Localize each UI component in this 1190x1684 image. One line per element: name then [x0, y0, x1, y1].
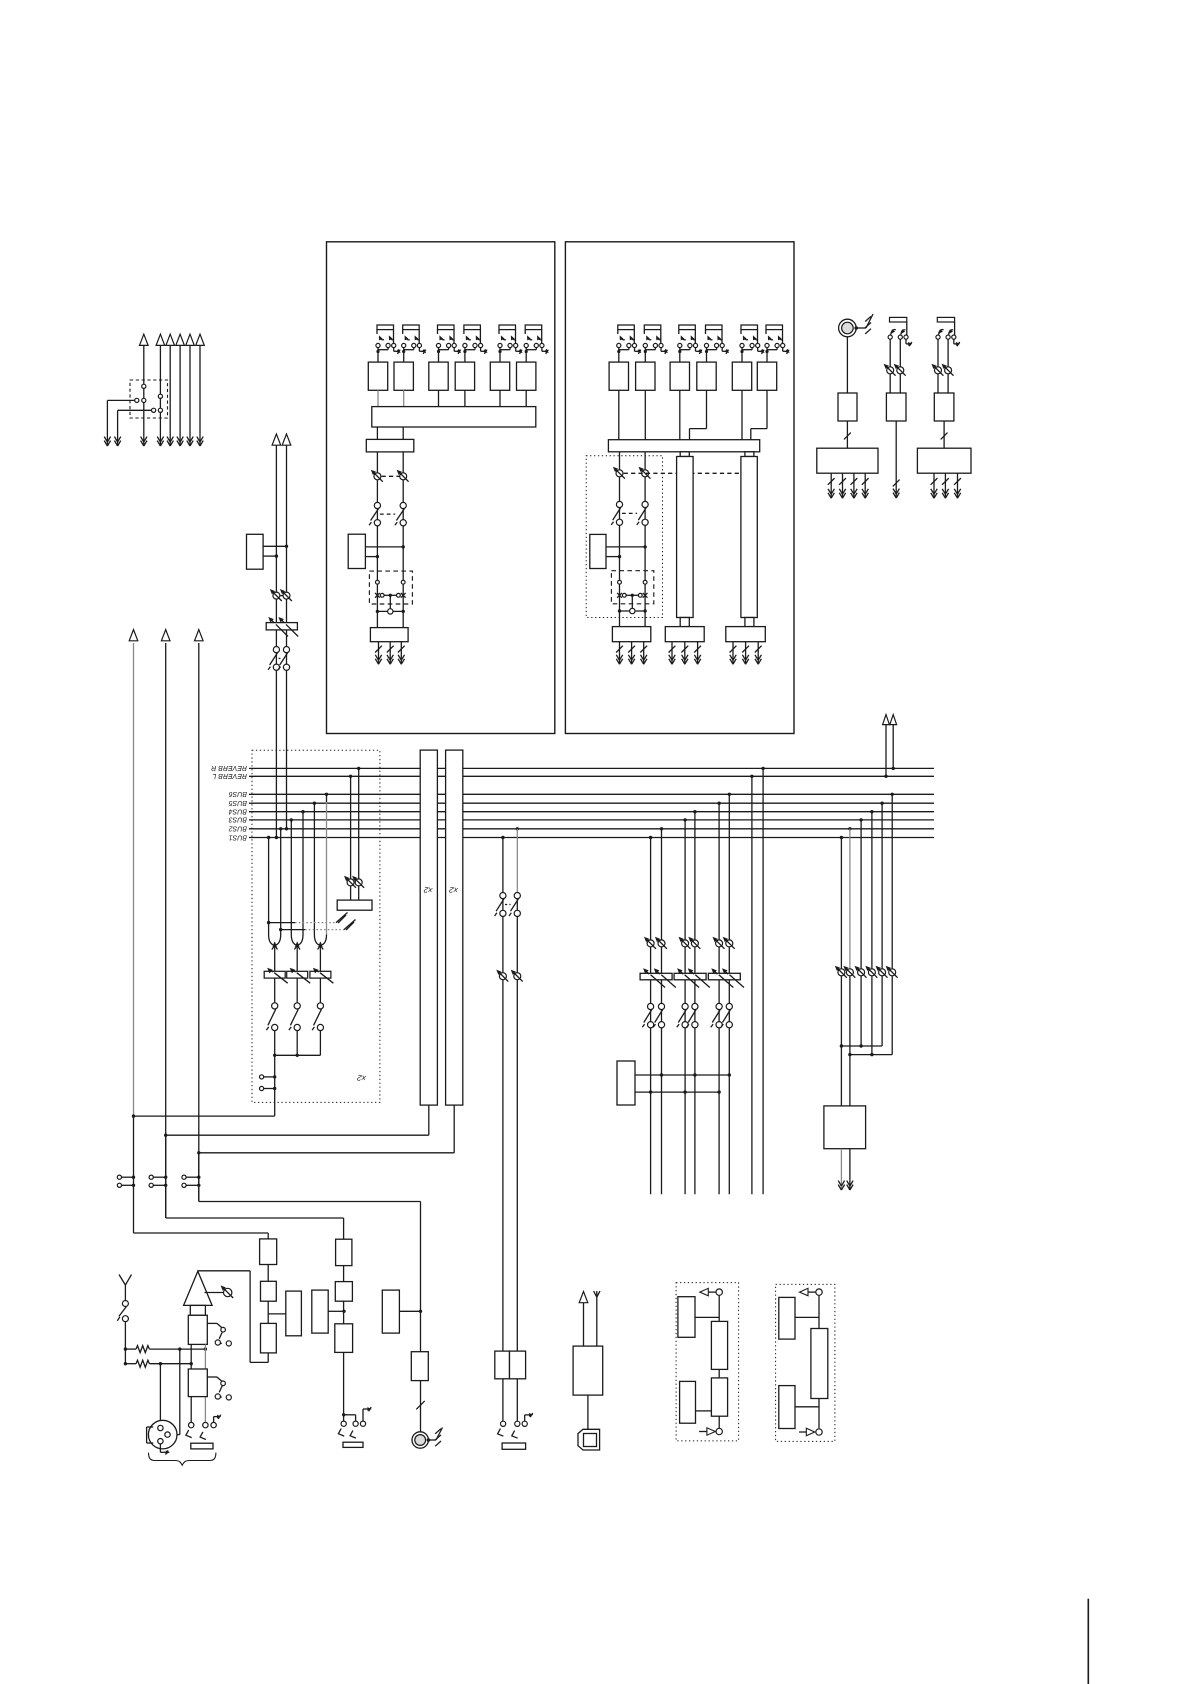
wire aux stub 2	[117, 410, 119, 446]
option2 out connector	[816, 1289, 822, 1295]
wire group drop B5	[717, 802, 720, 805]
option2 wiring top	[818, 1295, 820, 1328]
wire AUX B link	[399, 1310, 420, 1312]
wire group drop B4	[693, 810, 696, 813]
svg-text:BUS1: BUS1	[229, 833, 247, 840]
wire MON branch	[268, 1313, 286, 1315]
block FB1 out	[665, 627, 704, 642]
jack J2-1	[618, 325, 635, 330]
wire bus BUS5	[249, 802, 934, 804]
switch box S1 (dashed)	[130, 380, 168, 418]
wire MON out riser 2	[165, 643, 167, 1218]
jack J1-3	[438, 325, 455, 330]
wire MON A2-A3	[267, 1301, 269, 1323]
block head amp neck	[190, 1305, 205, 1315]
block HA2-5	[732, 362, 751, 390]
fader master 297	[287, 971, 308, 978]
wire rec drop B5	[880, 802, 883, 805]
wire group ref row1	[635, 1074, 729, 1076]
wire RV wiper L (dotted)	[269, 922, 295, 924]
pot group B2	[658, 940, 665, 947]
wire reverb send L	[750, 775, 753, 778]
wire rec merge odd	[840, 976, 842, 1106]
pot box2 VR-L	[616, 470, 623, 477]
wire ST pot gang (dashed)	[281, 595, 283, 597]
wire AMP-R2 out	[895, 421, 897, 490]
block HA1-4	[455, 362, 474, 390]
switch group B3	[682, 1003, 688, 1009]
pot group B6	[726, 940, 733, 947]
block box1 ref	[348, 534, 365, 568]
wire AMP-R3 out	[943, 421, 945, 448]
wire fader 297 out	[296, 978, 298, 1003]
option box 1 (dotted)	[676, 1283, 739, 1441]
wire CR tap L	[501, 836, 504, 839]
wire X2-B out	[453, 1105, 455, 1153]
switch box1 SW-L	[374, 502, 380, 508]
pot J4-L	[935, 367, 942, 374]
wire group/st output 3	[169, 346, 171, 447]
svg-text:BUS4: BUS4	[229, 808, 247, 815]
wire AUX out	[420, 1381, 422, 1432]
block box1 frame	[327, 242, 555, 734]
contact circles S1	[107, 399, 134, 401]
wire rec merge even	[849, 976, 851, 1106]
ground box1 g3	[400, 642, 402, 665]
wire bus BUS3	[249, 819, 934, 821]
fader master 275	[264, 971, 285, 978]
wire HA1-2 to bus bar	[403, 390, 405, 406]
wire master to monitor bus	[134, 1115, 275, 1117]
wire ST-L riser	[275, 445, 277, 837]
wire RV wiper R (dotted)	[281, 929, 305, 931]
fader bar X2-A	[420, 750, 437, 1105]
wire ST stub1	[263, 545, 286, 547]
amp triangle	[197, 1270, 199, 1272]
fader bar X2-B	[446, 750, 463, 1105]
wire bus BUS6	[249, 793, 934, 795]
option1 wiring top	[718, 1295, 720, 1321]
wire group drop B2	[660, 827, 663, 830]
option1 R4	[680, 1381, 696, 1423]
connector stubs riser2	[149, 1175, 153, 1179]
wire bus BUS2	[249, 828, 934, 830]
option2 wiring bottom	[818, 1399, 820, 1429]
jack phones	[502, 1379, 504, 1422]
ground box1 g2	[389, 642, 391, 665]
option1 wiring bottom	[718, 1416, 720, 1428]
fader bar FB1	[677, 457, 694, 618]
switch pad 2	[207, 1376, 217, 1378]
block OUT-R2	[917, 448, 971, 473]
jack J3	[890, 317, 907, 322]
pot CR-L	[499, 973, 506, 980]
block MON A2	[261, 1281, 277, 1301]
ground box1 g1	[378, 642, 380, 665]
jack J1-6	[525, 325, 542, 330]
wire group drop B3	[683, 818, 686, 821]
wire rec out L	[840, 1149, 842, 1190]
wire phantom input Y	[119, 1275, 125, 1286]
switch ST-L	[273, 647, 279, 653]
wire X2-A out	[428, 1105, 430, 1135]
wire group/st output 6	[199, 346, 201, 447]
block AMP-R2	[886, 393, 906, 421]
ground FB1 g1	[671, 642, 673, 665]
wire HA2-3 feed	[679, 390, 681, 439]
pot rec B3	[858, 969, 865, 976]
pot box1 VR-L	[374, 473, 381, 480]
jack J2-3	[679, 325, 696, 330]
fader bar FB2	[741, 457, 757, 618]
block phones amp R	[510, 1351, 526, 1379]
pot group B3	[682, 940, 689, 947]
connector stubs riser3	[182, 1175, 186, 1179]
wire ST switch gang (dashed)	[279, 657, 281, 659]
ground FB1 g2	[684, 642, 686, 665]
wire HA2-5 feed	[741, 390, 743, 439]
jack line in	[189, 1422, 194, 1427]
wire box1 switch gang (dashed)	[380, 513, 395, 515]
block TAPE A1	[336, 1239, 352, 1265]
ground OUT-R1 g4	[864, 473, 866, 498]
wire box2 gang (dashed)	[624, 472, 741, 474]
wire reverb return riser L	[884, 775, 887, 778]
block TAPE A2	[335, 1282, 352, 1302]
block HA1-1	[368, 362, 387, 390]
relay box box1 (dashed)	[369, 571, 412, 604]
wire rec drop B4	[870, 810, 873, 813]
ground FB2 g3	[757, 642, 759, 665]
wire power out +	[583, 1303, 585, 1347]
pot box1 VR-R	[400, 473, 407, 480]
wire drop B2 to cup	[279, 827, 282, 830]
wire drop B5 to cup	[313, 802, 316, 805]
wire power in AC	[596, 1291, 598, 1346]
wire drop B1 to cup	[267, 836, 270, 839]
block AUX B (left)	[382, 1290, 399, 1333]
contacts box2	[618, 580, 622, 584]
wire box2 R feed	[644, 452, 646, 627]
pot J3-L	[887, 367, 894, 374]
wire reverb send R	[761, 767, 764, 770]
wire TAPE A2-A3	[343, 1301, 345, 1324]
block HA2-4	[697, 362, 716, 390]
svg-text:x2: x2	[448, 885, 459, 895]
block OUT-R1	[817, 448, 878, 473]
switch phantom	[122, 1301, 128, 1307]
wire drop B6 to cup	[325, 793, 328, 796]
wire fader 275 out	[274, 978, 276, 1003]
wire J3 feeds	[889, 339, 891, 393]
jack J1-4	[464, 325, 481, 330]
wire bar to sub	[376, 427, 378, 439]
pot rec B4	[868, 969, 875, 976]
group box ST master (dotted)	[252, 750, 380, 1102]
wire rec drop B3	[859, 818, 862, 821]
option1 link	[718, 1369, 720, 1378]
block group ref	[617, 1061, 635, 1105]
wire bus REVERB L	[249, 775, 934, 777]
pot group B1	[647, 940, 654, 947]
wire cup 297 out	[296, 950, 298, 971]
wire box2 sum row	[620, 610, 646, 612]
block HA1-5	[490, 362, 509, 390]
fader bar FB1 neck bottom	[680, 618, 689, 627]
pot J4-R	[945, 367, 952, 374]
block MON B1	[286, 1291, 302, 1336]
switch group B2	[658, 1003, 664, 1009]
option2 R2 (tall)	[811, 1329, 828, 1399]
wire HA1-1 to bus bar	[377, 390, 379, 406]
ground OUT-R1 g3	[853, 473, 855, 498]
block box2 ref	[590, 534, 606, 568]
block HA1-2	[394, 362, 413, 390]
fader group 656	[640, 973, 672, 980]
wire HA1-3 to bus bar	[438, 390, 440, 406]
fader group 690	[674, 973, 706, 980]
block ST ref	[247, 534, 264, 569]
connector stubs master	[260, 1075, 264, 1079]
fader master 320	[310, 971, 331, 978]
option2 R1	[779, 1297, 795, 1339]
wire box1 R feed	[402, 452, 404, 628]
option1 in connector	[716, 1428, 722, 1434]
ground FB2 g1	[732, 642, 734, 665]
wire HA2-1 feed	[618, 390, 620, 439]
switch group B4	[692, 1003, 698, 1009]
block box2 frame	[565, 242, 794, 734]
pot rec B2	[846, 969, 853, 976]
wire HA1-6 to bus bar	[525, 390, 527, 406]
option1 R2 (tall)	[711, 1321, 727, 1369]
pot RV-L	[347, 879, 354, 886]
block AMP-R3	[934, 393, 954, 421]
wire box1 stub2	[365, 556, 377, 558]
switch pad 1	[207, 1322, 217, 1324]
fader group 724	[708, 973, 740, 980]
wire monitor bus 3 turn	[198, 1153, 200, 1202]
wire HA1-4 to bus bar	[464, 390, 466, 406]
block stage 2	[188, 1369, 207, 1397]
block HA2-3	[670, 362, 689, 390]
relay box box2 (dashed)	[611, 571, 653, 604]
block TAPE B (left)	[312, 1290, 328, 1333]
jack J2-5	[741, 325, 758, 330]
pot rec B5	[879, 969, 886, 976]
wire group/st output 5	[189, 346, 191, 447]
block head amp	[188, 1315, 207, 1344]
wire bus BUS1	[249, 837, 934, 839]
wire cup 320 out	[319, 950, 321, 971]
node sum cup 320	[314, 935, 319, 945]
connector DC jack	[587, 1395, 589, 1429]
pot box2 VR-R	[642, 470, 649, 477]
fader bar FB2 neck top	[745, 452, 754, 457]
ground box2 g3	[643, 642, 645, 665]
pot rec B1	[838, 969, 845, 976]
wire TAPE A3 out	[343, 1352, 345, 1421]
wire XLR pin1 ground	[159, 1444, 161, 1452]
wire CN1 to block	[846, 337, 848, 393]
wire group drop B6	[728, 793, 731, 796]
node sum cup 297	[291, 935, 296, 945]
svg-text:BUS5: BUS5	[229, 799, 247, 806]
wire drop B3 to cup	[290, 818, 293, 821]
block box1 out	[370, 628, 408, 642]
connector RCA out	[412, 1432, 428, 1448]
wire group/st output 2	[159, 346, 161, 447]
jack TAPE out	[341, 1421, 346, 1426]
wire box2 stub1	[606, 546, 645, 548]
wire stage link L	[190, 1344, 192, 1425]
block HA1-3	[429, 362, 448, 390]
ground box2 g1	[619, 642, 621, 665]
wire MON out riser (gray)	[133, 643, 135, 1116]
ground OUT-R2 g3	[957, 473, 959, 498]
block AUX A	[411, 1352, 428, 1381]
resistor R-A	[125, 1348, 136, 1350]
wire drop REVERB L return	[349, 775, 352, 778]
node sum cup 275	[269, 935, 274, 945]
block mix bar U3	[608, 440, 759, 452]
pot CR-R	[514, 973, 521, 980]
block HA2-2	[636, 362, 655, 390]
block sub U2	[366, 439, 414, 452]
jack J1-2	[403, 325, 420, 330]
block FB2 out	[726, 627, 766, 642]
block TAPE A3	[335, 1324, 353, 1353]
svg-text:REVERB L: REVERB L	[212, 772, 247, 779]
wire group drop B1	[649, 836, 652, 839]
option1 out connector	[716, 1289, 722, 1295]
fader bar FB1 neck top	[680, 452, 689, 457]
pot J3-R	[897, 367, 904, 374]
wire group/st output 1	[143, 346, 145, 447]
wire phantom feed	[124, 1322, 126, 1364]
wire box1 L feed	[376, 452, 378, 628]
connector XLR	[148, 1420, 177, 1449]
switch box2 SW-L	[616, 501, 622, 507]
ground OUT-R2 g2	[944, 473, 946, 498]
jack J2-6	[766, 325, 783, 330]
chassis ground CN1	[856, 327, 866, 329]
block MON A3	[261, 1323, 277, 1353]
block HA1-6	[517, 362, 536, 390]
option1 R3	[711, 1378, 727, 1416]
wire CR tap R (gray)	[516, 827, 519, 830]
jack J2-4	[706, 325, 723, 330]
wire fader 320 out	[319, 978, 321, 1003]
block MON A1	[260, 1239, 277, 1265]
group box box2 pair (dotted)	[586, 456, 662, 618]
wire XLR pin2 feed	[179, 1349, 181, 1435]
block power supply	[573, 1346, 603, 1395]
connector CN1 (phones circle)	[839, 319, 857, 337]
wire XLR pin3 feed	[159, 1364, 161, 1426]
block HA2-6	[757, 362, 776, 390]
wire J4 feeds	[937, 339, 939, 393]
wire MON A1-A2	[267, 1265, 269, 1282]
switch master 297	[294, 1003, 300, 1009]
fader ST master	[266, 623, 297, 630]
wire rec drop B1	[840, 836, 843, 839]
wire monitor bus 2 turn	[165, 1135, 167, 1218]
wire bus REVERB R	[249, 767, 934, 769]
option1 R1	[678, 1297, 695, 1338]
block reverb return level	[350, 886, 352, 900]
wire TAPE A1-A2	[343, 1266, 345, 1282]
wire rec out R	[849, 1149, 851, 1190]
wire master join row	[274, 1031, 276, 1056]
wire monitor bus 1 turn	[133, 1116, 135, 1233]
wire ST stub2	[263, 555, 276, 557]
wire box2 stub2	[606, 556, 620, 558]
ground OUT-R1 g1	[830, 473, 832, 498]
ground OUT-R1 g2	[842, 473, 844, 498]
block phones amp L	[495, 1351, 510, 1379]
ground FB2 g2	[745, 642, 747, 665]
switch box2 SW-R	[642, 501, 648, 507]
option2 R3	[779, 1386, 795, 1429]
brace input group	[149, 1453, 216, 1466]
svg-text:x2: x2	[423, 885, 434, 895]
switch group B1	[648, 1003, 654, 1009]
wire group/st output 4	[179, 346, 181, 447]
svg-text:BUS6: BUS6	[229, 790, 247, 797]
page edge mark	[1087, 1599, 1089, 1684]
svg-text:BUS3: BUS3	[229, 816, 247, 823]
wire TAPE B link	[328, 1310, 344, 1312]
connector stubs riser1	[117, 1175, 121, 1179]
block AMP-R1	[838, 393, 857, 421]
resistor R-B	[125, 1363, 136, 1365]
wire box2 switch gang (dashed)	[622, 512, 637, 514]
wire box1 stub1	[365, 546, 403, 548]
jack J1-5	[499, 325, 516, 330]
ground FB1 g3	[697, 642, 699, 665]
wire box2 L feed	[619, 452, 621, 627]
wire HA1-5 to bus bar	[499, 390, 501, 406]
svg-text:REVERB R: REVERB R	[211, 764, 247, 771]
block HA2-1	[609, 362, 628, 390]
switch group B6	[726, 1003, 732, 1009]
switch group B5	[716, 1003, 722, 1009]
switch box1 SW-R	[400, 502, 406, 508]
wire aux stub 1	[106, 400, 108, 446]
pot ST-R	[283, 592, 290, 599]
pot gain	[205, 1292, 224, 1294]
wire box1 sum row	[377, 610, 403, 612]
wire rec drop B2	[848, 827, 851, 830]
jack J1-1	[377, 325, 394, 330]
ground box2 g2	[631, 642, 633, 665]
pot ST-L	[273, 592, 280, 599]
wire reverb return riser R	[892, 767, 895, 770]
wire HA2-6 feed (jog)	[766, 390, 768, 428]
wire group ref row2	[635, 1091, 719, 1093]
wire CR switch gang (dashed)	[505, 904, 511, 906]
wire AMP-R1 out	[846, 421, 848, 448]
option2 in connector	[816, 1429, 822, 1435]
option box 2 (dotted)	[776, 1284, 835, 1441]
jack J4	[937, 317, 954, 322]
switch master 275	[272, 1003, 278, 1009]
wire HA2-4 feed (jog)	[706, 390, 708, 428]
wire ST-R riser	[286, 445, 288, 828]
svg-text:x2: x2	[356, 1073, 367, 1083]
wire MON out riser 3	[198, 643, 200, 1202]
